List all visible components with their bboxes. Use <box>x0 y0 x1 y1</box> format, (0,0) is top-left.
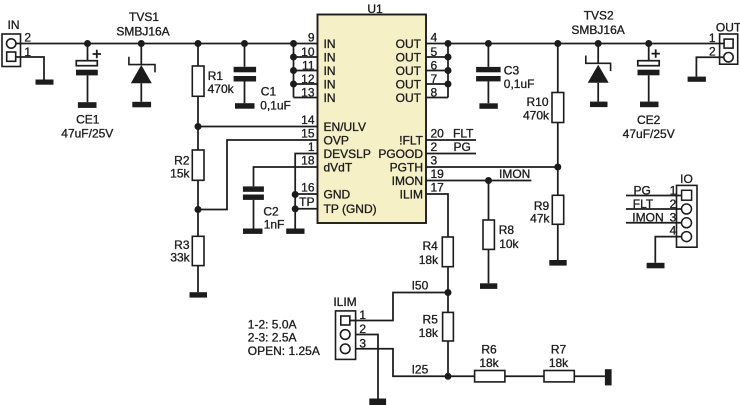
pin names U1 right <box>378 37 423 202</box>
svg-text:R10: R10 <box>526 95 548 109</box>
svg-text:14: 14 <box>301 113 315 127</box>
svg-text:1: 1 <box>709 31 716 45</box>
svg-text:IMON: IMON <box>392 174 423 188</box>
svg-text:U1: U1 <box>367 2 383 16</box>
resistor R1 470k <box>192 44 234 127</box>
node rail-TVS1 <box>138 40 145 47</box>
svg-text:12: 12 <box>301 72 315 86</box>
svg-text:4: 4 <box>670 224 677 238</box>
resistor R8 10k <box>483 181 520 284</box>
node rail-C3 <box>485 40 492 47</box>
ground (IN pin1) <box>36 80 54 85</box>
svg-text:10k: 10k <box>499 237 519 251</box>
resistor R5 18k <box>419 293 454 377</box>
svg-text:C1: C1 <box>261 85 277 99</box>
ground (R8) <box>480 283 497 289</box>
ground (TVS2) <box>590 102 608 108</box>
resistor R4 18k <box>419 237 454 293</box>
svg-text:TVS2: TVS2 <box>584 8 614 22</box>
wire net PG to IO pin1 <box>626 195 682 197</box>
node I50 <box>445 289 452 296</box>
connector IO <box>670 172 697 247</box>
wire EN/ULV pin14 to R1/R2 node <box>198 126 318 128</box>
node bus pin11 <box>290 67 297 74</box>
svg-text:11: 11 <box>302 58 315 72</box>
svg-text:4: 4 <box>431 31 438 45</box>
wire IN pin1 to ground <box>16 57 44 80</box>
svg-text:OUT: OUT <box>396 50 422 64</box>
wire OVP pin15 to R2/R3 node <box>198 140 318 210</box>
pin numbers U1 right <box>431 31 445 195</box>
ground (R9) <box>549 260 566 266</box>
wire ILIM pin3 to I25 <box>356 349 448 377</box>
svg-text:3: 3 <box>359 336 366 350</box>
wire net FLT to IO pin2 <box>626 208 682 210</box>
svg-text:2: 2 <box>24 30 31 44</box>
svg-text:IMON: IMON <box>632 210 663 224</box>
svg-text:CE1: CE1 <box>76 113 100 127</box>
svg-text:470k: 470k <box>523 109 550 123</box>
wire PG pin2 <box>426 153 476 155</box>
svg-text:R5: R5 <box>423 312 439 326</box>
svg-text:GND: GND <box>324 187 351 201</box>
node bus pin5 <box>445 54 452 61</box>
svg-text:OUT: OUT <box>396 37 422 51</box>
node PGTH R10-R9 <box>554 164 561 171</box>
svg-text:OUT: OUT <box>716 20 740 34</box>
svg-text:20: 20 <box>431 127 445 141</box>
svg-text:3: 3 <box>431 154 438 168</box>
wire input rail <box>16 43 318 45</box>
svg-text:IN: IN <box>8 18 20 32</box>
wire FLT pin20 <box>426 139 476 141</box>
ground (CE1) <box>78 102 97 108</box>
connector OUT <box>709 20 740 64</box>
svg-text:TP: TP <box>299 195 314 209</box>
node rail-CE1 <box>84 40 91 47</box>
svg-text:2-3: 2.5A: 2-3: 2.5A <box>248 331 297 345</box>
node rail-R1 <box>195 40 202 47</box>
resistor R2 15k <box>170 127 204 237</box>
svg-text:TP (GND): TP (GND) <box>324 202 377 216</box>
wire IO pin4 to ground <box>655 237 681 263</box>
node bus pin10 <box>290 54 297 61</box>
svg-text:16: 16 <box>301 181 315 195</box>
svg-text:PGTH: PGTH <box>390 160 423 174</box>
svg-text:C3: C3 <box>504 64 520 78</box>
wire output rail <box>426 43 724 45</box>
ground (C2) <box>243 229 263 234</box>
wire OUT pin2 to ground <box>696 57 723 76</box>
node rail-TVS2 <box>595 40 602 47</box>
svg-text:18k: 18k <box>479 356 499 370</box>
node GND pin16 <box>292 191 299 198</box>
svg-text:IN: IN <box>324 77 336 91</box>
ground (ILIM pin2) <box>369 399 386 405</box>
svg-text:I50: I50 <box>412 279 429 293</box>
wire I25 to R6 <box>448 375 475 377</box>
svg-text:OUT: OUT <box>396 77 422 91</box>
svg-text:19: 19 <box>431 167 445 181</box>
svg-text:PG: PG <box>634 183 651 197</box>
ground (R3) <box>190 292 208 297</box>
svg-text:IO: IO <box>680 172 693 186</box>
wire R6 to R7 <box>505 375 544 377</box>
svg-text:2: 2 <box>431 140 438 154</box>
svg-text:47uF/25V: 47uF/25V <box>61 127 113 141</box>
svg-text:TVS1: TVS1 <box>129 10 159 24</box>
wire I50 to ILIM pin1 <box>350 293 448 321</box>
svg-text:1-2: 5.0A: 1-2: 5.0A <box>248 317 297 331</box>
ground (R7 end, vertical bar) <box>605 369 612 385</box>
svg-text:17: 17 <box>431 181 445 195</box>
svg-text:R7: R7 <box>551 343 567 357</box>
jumper setting text <box>248 317 320 358</box>
node I25 <box>445 373 452 380</box>
wire PGTH pin3 to R10/R9 <box>426 166 558 168</box>
capacitor CE1 47uF/25V <box>61 44 113 141</box>
ground (TVS1) <box>132 102 151 108</box>
ground (GND/TP) <box>286 229 304 234</box>
svg-text:0,1uF: 0,1uF <box>260 99 291 113</box>
svg-text:47uF/25V: 47uF/25V <box>623 127 675 141</box>
node OVP R2-R3 <box>195 206 202 213</box>
svg-text:CE2: CE2 <box>637 113 661 127</box>
wire ILIM pin17 to R4 <box>426 194 448 237</box>
node bus pin12 <box>290 81 297 88</box>
node IMON-R8 <box>485 177 492 184</box>
resistor R9 47k <box>530 195 564 260</box>
svg-text:R6: R6 <box>481 343 497 357</box>
wire output bus pins 4-8 <box>426 44 448 98</box>
node rail-CE2 <box>645 40 652 47</box>
svg-text:PGOOD: PGOOD <box>378 147 423 161</box>
svg-text:10: 10 <box>301 45 315 59</box>
svg-text:1: 1 <box>308 140 315 154</box>
node TP <box>292 205 299 212</box>
ground (C3) <box>479 103 497 109</box>
svg-text:SMBJ16A: SMBJ16A <box>571 23 624 37</box>
node EN/ULV R1-R2 <box>195 123 202 130</box>
svg-text:33k: 33k <box>170 251 190 265</box>
svg-text:R4: R4 <box>422 239 438 253</box>
wire net IMON to IO pin3 <box>626 222 682 224</box>
node bus pin7 <box>445 81 452 88</box>
svg-text:DEVSLP: DEVSLP <box>324 147 371 161</box>
connector IN <box>2 18 31 66</box>
svg-text:ILIM: ILIM <box>333 295 356 309</box>
pin numbers U1 left <box>299 31 315 210</box>
svg-text:18: 18 <box>301 154 315 168</box>
svg-text:!FLT: !FLT <box>399 133 423 147</box>
node bus pin6 <box>445 67 452 74</box>
resistor R7 18k <box>544 343 574 382</box>
ground (CE2) <box>640 102 659 108</box>
svg-text:9: 9 <box>308 31 315 45</box>
svg-text:18k: 18k <box>419 253 439 267</box>
svg-text:OPEN: 1.25A: OPEN: 1.25A <box>248 344 320 358</box>
svg-text:ILIM: ILIM <box>400 187 423 201</box>
capacitor C1 0,1uF <box>234 44 291 113</box>
svg-text:R1: R1 <box>208 69 224 83</box>
svg-text:dVdT: dVdT <box>324 160 353 174</box>
svg-text:1: 1 <box>359 308 366 322</box>
svg-text:IN: IN <box>324 37 336 51</box>
svg-text:R8: R8 <box>499 223 515 237</box>
capacitor C2 1nF <box>243 186 284 231</box>
wire input bus pins 9-13 <box>294 44 318 98</box>
connector ILIM <box>333 295 366 359</box>
svg-text:IN: IN <box>324 50 336 64</box>
node bus pin4 <box>445 40 452 47</box>
ground (OUT pin2) <box>688 77 706 82</box>
TVS diode TVS1 SMBJ16A <box>116 10 169 102</box>
capacitor C3 0,1uF <box>476 44 534 104</box>
svg-text:470k: 470k <box>208 82 235 96</box>
svg-text:1nF: 1nF <box>264 218 285 232</box>
svg-text:FLT: FLT <box>453 127 474 141</box>
svg-text:OUT: OUT <box>396 91 422 105</box>
svg-text:18k: 18k <box>549 356 569 370</box>
capacitor CE2 47uF/25V <box>623 44 675 142</box>
wire R7 to end ground <box>574 375 605 377</box>
svg-text:47k: 47k <box>530 211 550 225</box>
svg-text:C2: C2 <box>263 204 279 218</box>
ground (C1) <box>235 103 255 109</box>
resistor R10 470k <box>523 44 564 196</box>
IC U1 <box>318 2 427 223</box>
svg-text:IN: IN <box>324 64 336 78</box>
svg-text:I25: I25 <box>412 362 429 376</box>
resistor R3 33k <box>170 236 204 292</box>
svg-text:R2: R2 <box>174 154 190 168</box>
resistor R6 18k <box>475 343 505 382</box>
svg-text:OVP: OVP <box>324 133 349 147</box>
node rail-R10 <box>554 40 561 47</box>
pin names U1 left <box>324 37 377 216</box>
node rail-C1 <box>241 40 248 47</box>
wire dVdT pin18 to C2 <box>254 167 318 186</box>
svg-text:PG: PG <box>454 140 471 154</box>
svg-text:15: 15 <box>301 127 315 141</box>
svg-text:13: 13 <box>301 85 315 99</box>
wire DEVSLP pin1 to GND/TP and ground <box>295 154 317 229</box>
wire IMON pin19 <box>426 180 531 182</box>
svg-text:EN/ULV: EN/ULV <box>324 120 366 134</box>
wire ILIM pin2 to ground <box>356 335 378 399</box>
svg-text:SMBJ16A: SMBJ16A <box>116 24 169 38</box>
svg-text:FLT: FLT <box>633 197 654 211</box>
svg-text:18k: 18k <box>419 326 439 340</box>
svg-text:0,1uF: 0,1uF <box>504 77 535 91</box>
TVS diode TVS2 SMBJ16A <box>571 8 624 101</box>
svg-text:IN: IN <box>324 91 336 105</box>
ground (IO pin4) <box>647 263 665 269</box>
svg-text:15k: 15k <box>170 167 190 181</box>
svg-text:IMON: IMON <box>499 167 530 181</box>
node bus pin9 <box>290 40 297 47</box>
svg-text:OUT: OUT <box>396 64 422 78</box>
